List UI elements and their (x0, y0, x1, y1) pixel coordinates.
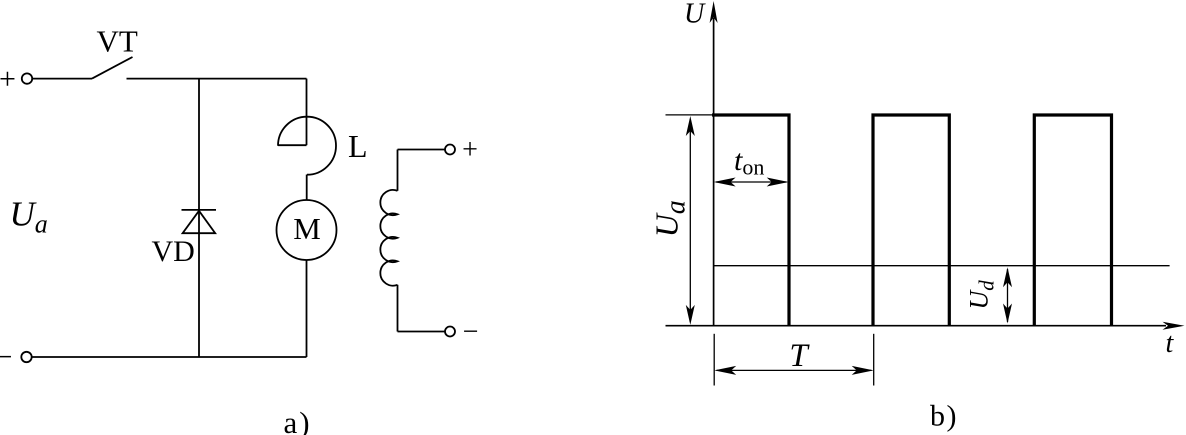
svg-text:T: T (789, 338, 810, 374)
svg-text:M: M (293, 211, 321, 246)
svg-text:−: − (463, 317, 479, 348)
svg-text:t: t (1166, 328, 1175, 359)
svg-text:VD: VD (152, 235, 195, 268)
svg-text:L: L (348, 128, 368, 164)
svg-text:VT: VT (97, 23, 138, 58)
svg-text:−: − (0, 341, 12, 374)
svg-text:b): b) (930, 400, 958, 433)
svg-text:U: U (684, 0, 706, 30)
svg-text:+: + (462, 135, 478, 166)
svg-text:+: + (0, 63, 16, 96)
svg-text:a): a) (283, 405, 311, 435)
